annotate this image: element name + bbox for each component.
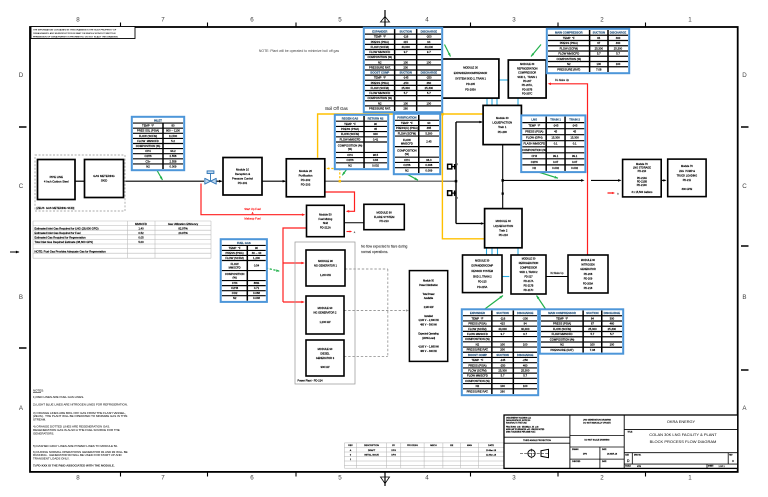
svg-text:480 V -- 500 kW: 480 V -- 500 kW: [420, 325, 437, 327]
svg-text:C2H6: C2H6: [403, 163, 411, 167]
block Module 70 LNG pump truck loading: [668, 159, 706, 197]
svg-text:DFG: DFG: [391, 450, 396, 452]
svg-text:100: 100: [610, 343, 615, 347]
svg-text:100: 100: [500, 384, 505, 388]
svg-text:100: 100: [403, 60, 408, 64]
table purification stream: [394, 114, 440, 174]
svg-text:C2H6: C2H6: [144, 154, 152, 158]
svg-text:0.05: 0.05: [138, 236, 144, 240]
svg-text:Gas Utilization Efficiency: Gas Utilization Efficiency: [168, 222, 199, 226]
svg-text:TRANSIENT LOADS ONLY.: TRANSIENT LOADS ONLY.: [33, 457, 70, 461]
svg-text:SUCTION: SUCTION: [399, 71, 411, 75]
svg-text:25,300: 25,300: [588, 327, 597, 331]
svg-text:Makeup Fuel: Makeup Fuel: [244, 217, 261, 221]
svg-text:COMPOSITION (%): COMPOSITION (%): [368, 96, 393, 100]
svg-text:N2: N2: [476, 384, 480, 388]
svg-text:PD-205A: PD-205A: [465, 87, 476, 91]
svg-text:0.048: 0.048: [253, 296, 260, 300]
svg-text:PRESS (PSIA): PRESS (PSIA): [226, 251, 244, 255]
block Module 70 LNG storage: [623, 159, 662, 197]
tie-in symbol lower on header: [448, 191, 458, 200]
gas requirement summary table: [33, 221, 211, 258]
zone row labels left: [19, 72, 24, 412]
svg-text:FLASH MMSCFD: FLASH MMSCFD: [523, 142, 545, 146]
svg-text:12-Mar-18: 12-Mar-18: [486, 453, 497, 456]
svg-text:TRUCK LOADING: TRUCK LOADING: [677, 174, 698, 177]
svg-text:-145: -145: [403, 76, 409, 80]
svg-text:0.07: 0.07: [572, 160, 578, 164]
svg-text:2: 2: [457, 164, 458, 166]
svg-text:1) RED LINES ARE FUEL GAS LINE: 1) RED LINES ARE FUEL GAS LINES.: [33, 395, 84, 399]
svg-text:FLOW MMSCFD: FLOW MMSCFD: [558, 52, 579, 56]
svg-text:99.1: 99.1: [553, 154, 559, 158]
svg-text:Expected Operating: Expected Operating: [418, 332, 439, 335]
svg-text:C: C: [742, 183, 747, 190]
svg-text:FLOW: FLOW: [403, 138, 411, 142]
svg-text:PD-211: PD-211: [683, 179, 692, 182]
svg-text:N2: N2: [233, 296, 237, 300]
svg-text:0.002: 0.002: [571, 166, 578, 170]
svg-text:5.7: 5.7: [523, 374, 527, 378]
svg-text:FLOW (SCFM): FLOW (SCFM): [225, 256, 243, 260]
svg-text:C3+: C3+: [145, 159, 151, 163]
svg-text:COMPOSITION (%): COMPOSITION (%): [338, 144, 363, 148]
svg-text:2: 2: [457, 198, 458, 200]
svg-text:DIMS: TOLERANCE PER ASME Y14.5: DIMS: TOLERANCE PER ASME Y14.5: [506, 431, 535, 434]
svg-text:PD-210B: PD-210B: [637, 181, 647, 184]
stream arrow expander table T1: [445, 45, 451, 57]
svg-text:MAIN COMPRESSOR: MAIN COMPRESSOR: [555, 31, 583, 35]
svg-text:1 OF 1: 1 OF 1: [719, 466, 726, 468]
svg-text:DRAWN: DRAWN: [572, 448, 579, 451]
svg-text:PD-212A: PD-212A: [320, 225, 331, 229]
table regen gas stream: [335, 115, 388, 169]
svg-text:84: 84: [591, 316, 595, 320]
wire header to Train 1: [456, 121, 483, 124]
svg-text:SKID 2, TRAIN 2: SKID 2, TRAIN 2: [473, 275, 492, 278]
svg-text:MMSCFD: MMSCFD: [135, 222, 147, 226]
svg-text:PRESS (PSIA): PRESS (PSIA): [525, 130, 543, 134]
svg-text:94: 94: [427, 40, 431, 44]
wire power gen1 dashed (gray): [345, 268, 388, 270]
svg-text:TITLE:: TITLE:: [628, 432, 634, 434]
svg-text:PD-209A: PD-209A: [583, 282, 593, 285]
svg-text:OKRA ENERGY HOLDINGS LLC: OKRA ENERGY HOLDINGS LLC: [506, 416, 532, 419]
svg-text:DWG NO.: DWG NO.: [634, 454, 642, 456]
zone row labels right: [742, 72, 747, 412]
svg-text:2.558: 2.558: [170, 159, 177, 163]
svg-text:FLOW (SCFM): FLOW (SCFM): [341, 132, 359, 136]
svg-text:normal operations.: normal operations.: [361, 250, 388, 254]
svg-text:TEMP °F: TEMP °F: [528, 124, 540, 128]
block Module 40 train2: [485, 209, 522, 248]
block Module 90 flare system: [364, 204, 404, 229]
svg-text:PERMISSION OF OKRA ENERGY IS P: PERMISSION OF OKRA ENERGY IS PROHIBITED.…: [33, 35, 119, 38]
block Module 20 purification: [286, 159, 325, 197]
svg-text:GAS METERING: GAS METERING: [93, 174, 114, 178]
svg-text:TEMP °F: TEMP °F: [556, 316, 568, 320]
wire fuel gas Module 20 to fuel mixing (red): [325, 192, 355, 213]
svg-text:PD-218: PD-218: [584, 287, 593, 290]
junction LNG rundown corner: [502, 179, 504, 181]
svg-text:(%): (%): [348, 147, 352, 151]
svg-text:[ZEUS GAS METERING SKID]: [ZEUS GAS METERING SKID]: [37, 206, 75, 210]
svg-text:4,160 V -- 2,300 kW: 4,160 V -- 2,300 kW: [418, 320, 439, 322]
svg-text:TEMP °F: TEMP °F: [563, 36, 575, 40]
svg-text:25,300: 25,300: [608, 327, 617, 331]
svg-text:-116: -116: [403, 35, 409, 39]
title block company address cell: [504, 416, 570, 443]
svg-text:N2: N2: [378, 101, 382, 105]
svg-text:5.7: 5.7: [610, 332, 614, 336]
svg-text:2: 2: [600, 17, 604, 24]
fold mark left: [10, 251, 20, 254]
svg-text:FLOW (SCFM): FLOW (SCFM): [468, 369, 486, 373]
svg-text:DESCRIPTION: DESCRIPTION: [364, 445, 379, 447]
table fuel gas stream: [221, 239, 267, 302]
svg-text:(%): (%): [232, 275, 236, 279]
wire Module 20 to liquefaction header: [325, 180, 456, 182]
svg-text:5.7: 5.7: [597, 52, 601, 56]
svg-text:-116: -116: [500, 316, 506, 320]
svg-text:-245: -245: [553, 124, 559, 128]
svg-text:N2: N2: [533, 166, 537, 170]
svg-text:NOTE: Fuel Gas Provides Adequa: NOTE: Fuel Gas Provides Adequate Gas for…: [35, 249, 107, 253]
svg-text:Fuel Mixing: Fuel Mixing: [318, 217, 332, 221]
label no flow to flare: [361, 245, 408, 254]
svg-text:25,300: 25,300: [521, 369, 530, 373]
svg-text:THIRD ANGLE PROJECTION: THIRD ANGLE PROJECTION: [523, 439, 551, 442]
title block: [504, 415, 738, 468]
svg-text:PRESS (PSIA): PRESS (PSIA): [553, 322, 571, 326]
svg-text:EXPANDER/COMP: EXPANDER/COMP: [471, 265, 493, 268]
svg-text:DFG: DFG: [391, 454, 396, 456]
svg-text:MAN: MAN: [467, 444, 472, 447]
svg-text:-200: -200: [522, 316, 528, 320]
svg-text:COMPOSITION (%): COMPOSITION (%): [556, 57, 581, 61]
svg-text:N2 Make Up: N2 Make Up: [551, 273, 565, 275]
svg-text:80: 80: [171, 124, 175, 128]
svg-text:15,300: 15,300: [551, 136, 560, 140]
wire inlet pipeline to metering skid: [75, 180, 85, 182]
svg-text:260: 260: [403, 106, 408, 110]
svg-text:REFRIGERATION: REFRIGERATION: [519, 262, 539, 265]
svg-text:460: 460: [427, 81, 432, 85]
svg-text:100: 100: [427, 101, 432, 105]
svg-text:TRAIN 1: TRAIN 1: [550, 118, 561, 122]
svg-text:MODULE 60: MODULE 60: [581, 259, 596, 262]
svg-text:30 -- 40: 30 -- 40: [252, 251, 262, 255]
svg-text:1,200 kW: 1,200 kW: [320, 273, 332, 277]
wire refrigeration T2 to N2 generator: [546, 276, 568, 278]
power plant container: [295, 242, 355, 384]
svg-text:BLOCK PROCESS FLOW DIAGRAM: BLOCK PROCESS FLOW DIAGRAM: [650, 439, 717, 444]
svg-text:Purification: Purification: [299, 174, 313, 178]
wire N2 expander to refrigeration Train2 (cyan): [502, 276, 509, 278]
svg-text:PD-207A,: PD-207A,: [522, 84, 533, 87]
svg-text:Module 70: Module 70: [681, 165, 693, 168]
wire power bus dashed vertical (gray): [387, 269, 389, 356]
svg-text:NOTE: Plant will be operated t: NOTE: Plant will be operated to minimize…: [259, 49, 339, 53]
svg-text:25,300: 25,300: [425, 86, 434, 90]
wire header to Train 2: [456, 222, 484, 225]
svg-text:COLAN 30K LNG FACILITY & PLANT: COLAN 30K LNG FACILITY & PLANT: [649, 432, 717, 437]
svg-text:MODULE 90: MODULE 90: [318, 347, 333, 351]
svg-text:90: 90: [255, 246, 259, 250]
svg-text:0.71: 0.71: [254, 286, 260, 290]
svg-text:NOTES:: NOTES:: [33, 389, 44, 393]
block pipeline: [38, 160, 76, 200]
svg-text:PD-217B: PD-217B: [524, 285, 534, 288]
svg-text:SHEET:: SHEET:: [708, 466, 714, 468]
svg-text:100: 100: [523, 384, 528, 388]
block Module 50 power distribution: [409, 271, 447, 362]
svg-text:B: B: [742, 294, 746, 301]
svg-text:4,160 V -- 1,665 kW: 4,160 V -- 1,665 kW: [418, 347, 439, 349]
svg-text:FLOW MMSCFD: FLOW MMSCFD: [369, 91, 390, 95]
svg-text:N2: N2: [378, 60, 382, 64]
svg-text:COMPRESSOR: COMPRESSOR: [520, 267, 538, 270]
svg-text:0.002: 0.002: [552, 166, 559, 170]
svg-text:9.7: 9.7: [404, 50, 408, 54]
svg-text:N2: N2: [476, 342, 480, 346]
svg-text:STREAM.: STREAM.: [33, 418, 46, 422]
svg-text:DATE: DATE: [488, 444, 494, 447]
svg-text:Module 50: Module 50: [423, 281, 434, 283]
svg-text:7: 7: [161, 17, 165, 24]
table main compressor train2: [540, 309, 623, 353]
svg-text:FLOW: FLOW: [231, 262, 239, 266]
svg-text:COMPOSITION (%): COMPOSITION (%): [136, 144, 161, 148]
svg-text:PD-210C: PD-210C: [637, 184, 647, 187]
wire boil-off gas main (orange): [318, 114, 483, 158]
svg-text:PD-213: PD-213: [380, 219, 390, 223]
svg-text:BOOST COMP: BOOST COMP: [468, 353, 487, 357]
svg-text:-250: -250: [522, 358, 528, 362]
svg-text:EXPANDER: EXPANDER: [470, 311, 485, 315]
svg-text:FG Make Up: FG Make Up: [555, 79, 570, 82]
svg-text:100: 100: [523, 342, 528, 346]
svg-text:FLOW (GPH): FLOW (GPH): [526, 136, 543, 140]
fold mark top center: [381, 10, 390, 27]
svg-text:DISCHARGE: DISCHARGE: [421, 30, 438, 34]
svg-text:Train 1: Train 1: [498, 125, 507, 129]
svg-text:0.1: 0.1: [573, 142, 577, 146]
svg-text:Installed: Installed: [424, 315, 433, 318]
fold mark bottom center: [381, 472, 390, 486]
wire N2 drops into Train 1 (cyan): [487, 98, 518, 105]
svg-text:DISCHARGE: DISCHARGE: [604, 311, 621, 315]
svg-text:FLOW MMSCFD: FLOW MMSCFD: [137, 139, 159, 143]
svg-text:5,300: 5,300: [425, 131, 432, 135]
svg-text:CH4: CH4: [532, 154, 538, 158]
table LNG product: [521, 115, 585, 172]
svg-text:8: 8: [76, 17, 80, 24]
svg-text:N2: N2: [567, 62, 571, 66]
svg-text:PRESS (PSIA): PRESS (PSIA): [468, 363, 486, 367]
title block scale sheet row: [625, 464, 725, 468]
svg-text:PROCESS: PROCESS: [407, 445, 418, 447]
svg-text:CH4: CH4: [232, 281, 238, 285]
svg-text:TEMP °F: TEMP °F: [471, 316, 483, 320]
svg-text:CH4: CH4: [145, 149, 151, 153]
svg-text:PRESS(U) (PSIA): PRESS(U) (PSIA): [396, 126, 418, 130]
svg-text:PD-207: PD-207: [523, 80, 532, 83]
svg-text:7) PD-XXX IS THE P&ID ASSOCIAT: 7) PD-XXX IS THE P&ID ASSOCIATED WITH TH…: [33, 463, 115, 467]
svg-text:Module 40: Module 40: [496, 116, 509, 120]
svg-text:Pressure Control: Pressure Control: [232, 176, 253, 180]
svg-text:OKRA ENERGY: OKRA ENERGY: [667, 419, 696, 424]
svg-text:FLOW MMSCFD: FLOW MMSCFD: [467, 374, 488, 378]
svg-text:B: B: [19, 294, 23, 301]
svg-text:FLOW (SCFM): FLOW (SCFM): [468, 327, 486, 331]
wire regeneration gas dashed (orange): [326, 167, 341, 182]
title block company name cell: [624, 419, 738, 429]
block diesel generator 3: [306, 340, 344, 376]
svg-text:3 x 15,500 Gallons: 3 x 15,500 Gallons: [631, 191, 653, 194]
svg-text:PD-215A: PD-215A: [477, 286, 487, 289]
svg-text:PD-217A: PD-217A: [524, 280, 534, 283]
svg-text:TEMP °F: TEMP °F: [401, 121, 413, 125]
svg-text:COMPOSITION (%): COMPOSITION (%): [465, 379, 490, 383]
svg-text:N2: N2: [146, 164, 150, 168]
svg-text:PD-215: PD-215: [478, 281, 487, 284]
svg-text:PD-203: PD-203: [301, 182, 311, 186]
svg-text:-250: -250: [403, 81, 409, 85]
svg-text:260: 260: [500, 389, 505, 393]
junction LNG rundown lower: [502, 193, 504, 195]
block Module 50 fuel mixing skid: [307, 205, 345, 236]
svg-text:PD-210A: PD-210A: [637, 177, 647, 180]
svg-text:PURIFICATION: PURIFICATION: [397, 116, 416, 120]
label start up fuel: [244, 207, 261, 220]
svg-text:94.2: 94.2: [170, 149, 176, 153]
svg-text:INLET: INLET: [154, 119, 162, 123]
svg-text:D: D: [19, 72, 24, 79]
svg-text:10-Mar-18: 10-Mar-18: [486, 449, 497, 452]
svg-text:DISCHARGE: DISCHARGE: [421, 71, 438, 75]
svg-text:(ZEUS). THE PLANT WILL BE OPE: (ZEUS). THE PLANT WILL BE OPERATED TO MI…: [33, 414, 127, 418]
svg-text:5) DASHED GRAY LINES ARE POWER: 5) DASHED GRAY LINES ARE POWER LINES TO …: [33, 444, 118, 448]
svg-text:0.009: 0.009: [425, 168, 432, 172]
svg-text:4 Inch Carbon Steel: 4 Inch Carbon Steel: [44, 180, 69, 184]
svg-text:SKID: SKID: [101, 179, 108, 183]
stream arrow purification table: [404, 173, 418, 181]
svg-text:PD-207C: PD-207C: [522, 93, 532, 96]
general notes: [33, 389, 128, 468]
svg-text:7: 7: [161, 475, 165, 482]
svg-text:FLOW (SCFM): FLOW (SCFM): [398, 131, 416, 135]
table expander-compressor train2: [462, 309, 538, 395]
svg-text:Module 70: Module 70: [636, 163, 648, 166]
svg-text:TEMP °F: TEMP °F: [471, 358, 483, 362]
svg-text:3: 3: [512, 17, 516, 24]
svg-text:Estimated Inlet Gas Required f: Estimated Inlet Gas Required for Fuel: [35, 231, 81, 235]
svg-text:HOUSTON, TX 77057 USA: HOUSTON, TX 77057 USA: [506, 422, 527, 425]
svg-text:0.54: 0.54: [254, 264, 260, 268]
svg-text:480 V -- 300 kW: 480 V -- 300 kW: [420, 351, 437, 353]
svg-text:DO NOT MANUALLY UPDATE: DO NOT MANUALLY UPDATE: [583, 421, 611, 424]
svg-text:FLOW (SCFM): FLOW (SCFM): [371, 45, 389, 49]
svg-text:100: 100: [427, 60, 432, 64]
svg-text:SUCTION: SUCTION: [586, 311, 598, 315]
svg-text:40,000: 40,000: [498, 327, 507, 331]
svg-text:LNG GENERATION DRAWING: LNG GENERATION DRAWING: [583, 418, 611, 421]
svg-text:LNG PUMP &: LNG PUMP &: [679, 170, 695, 173]
svg-text:MODULE 30: MODULE 30: [522, 258, 536, 261]
wire liquefaction header vertical: [455, 122, 457, 224]
svg-text:900: 900: [373, 132, 378, 136]
svg-text:5.7: 5.7: [591, 332, 595, 336]
stream arrow LNG table: [534, 171, 559, 179]
svg-text:FLARE SYSTEM: FLARE SYSTEM: [374, 215, 395, 219]
svg-text:PD-201: PD-201: [238, 181, 248, 185]
wire metering skid to valve: [124, 180, 205, 182]
svg-text:460: 460: [610, 322, 615, 326]
svg-text:5.7: 5.7: [404, 91, 408, 95]
svg-text:PD-207B: PD-207B: [522, 88, 532, 91]
svg-text:900 kW: 900 kW: [321, 365, 330, 369]
svg-text:15,300: 15,300: [570, 136, 579, 140]
svg-text:LIQUEFACTION: LIQUEFACTION: [493, 224, 513, 228]
svg-text:1,200 kW: 1,200 kW: [320, 320, 332, 324]
svg-text:CH4: CH4: [347, 153, 353, 157]
svg-text:82.97%: 82.97%: [178, 226, 188, 230]
svg-text:CHECKED: CHECKED: [572, 461, 581, 463]
svg-text:PRESS (PSIA): PRESS (PSIA): [560, 41, 578, 45]
svg-text:TEMP °F: TEMP °F: [344, 122, 356, 126]
svg-text:7.08: 7.08: [590, 348, 596, 352]
svg-text:COMPOSITION: COMPOSITION: [225, 272, 245, 276]
svg-text:PD-208: PD-208: [498, 130, 508, 134]
svg-text:NTS: NTS: [637, 466, 642, 468]
svg-text:MODULE 90: MODULE 90: [376, 211, 392, 215]
svg-text:0.84: 0.84: [373, 158, 379, 162]
svg-text:0.008: 0.008: [425, 163, 432, 167]
svg-text:25,300: 25,300: [595, 46, 604, 50]
svg-text:REGEN GAS: REGEN GAS: [342, 117, 359, 121]
svg-text:NITROGEN: NITROGEN: [581, 263, 594, 266]
svg-text:Available: Available: [424, 297, 434, 300]
svg-text:DISCHARGE: DISCHARGE: [610, 31, 627, 35]
svg-text:0.1: 0.1: [554, 142, 558, 146]
svg-text:Total Power: Total Power: [423, 293, 435, 296]
svg-text:300: 300: [610, 316, 615, 320]
svg-text:2,900 kW: 2,900 kW: [424, 307, 435, 309]
svg-text:NG GENERATOR 2: NG GENERATOR 2: [314, 311, 338, 315]
svg-text:PRESSURE (RAT): PRESSURE (RAT): [557, 67, 580, 71]
stream arrow regen table: [342, 168, 348, 176]
svg-text:0.068: 0.068: [253, 291, 260, 295]
svg-text:200: 200: [500, 348, 505, 352]
svg-text:100: 100: [500, 342, 505, 346]
svg-text:40,000: 40,000: [401, 45, 410, 49]
table inlet gas stream: [132, 117, 184, 170]
wire N2 drops into Train 2 (cyan): [487, 248, 519, 256]
svg-text:PRESSURE RAT.: PRESSURE RAT.: [467, 348, 489, 352]
svg-text:96.3: 96.3: [426, 158, 432, 162]
zone column labels bottom: [76, 475, 692, 482]
wire LNG rundown to storage: [503, 179, 622, 182]
table expander-compressor train1: [364, 28, 442, 112]
title block drawing control cell: [570, 418, 624, 468]
svg-text:67: 67: [597, 41, 601, 45]
svg-text:SKID 1, TRAIN 2: SKID 1, TRAIN 2: [519, 271, 538, 274]
svg-text:COMPRESSOR: COMPRESSOR: [518, 72, 536, 75]
svg-text:25,300: 25,300: [614, 46, 623, 50]
svg-text:PRESSURE RAT.: PRESSURE RAT.: [369, 65, 391, 69]
svg-text:10-MAR-18: 10-MAR-18: [607, 453, 618, 456]
